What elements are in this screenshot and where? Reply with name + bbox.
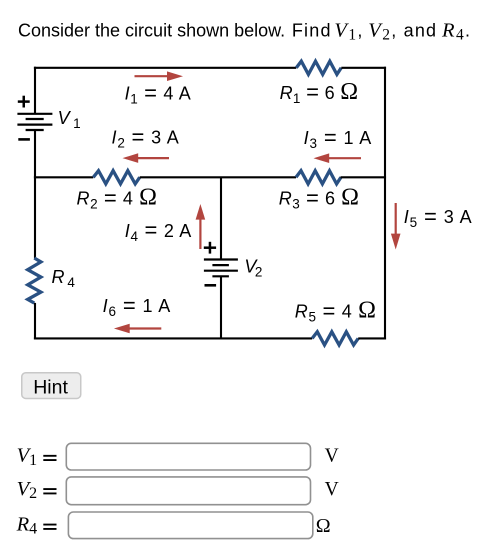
- current arrow I5 (down): [391, 203, 401, 250]
- resistor R1: [296, 61, 341, 74]
- hint button: [22, 373, 81, 399]
- label I1 = 4 A: [125, 80, 191, 106]
- label V1: [58, 108, 81, 131]
- svg-text:V: V: [325, 479, 339, 500]
- label I2 = 3 A: [112, 124, 179, 150]
- svg-text:I3 = 1 A: I3 = 1 A: [304, 125, 372, 151]
- wire left upper (top corner to battery V1): [34, 67, 36, 114]
- svg-text:R1 = 6 Ω: R1 = 6 Ω: [280, 79, 359, 106]
- wire top-right segment: [341, 67, 386, 69]
- wire top-left segment: [34, 67, 296, 69]
- svg-text:V1: V1: [17, 445, 38, 469]
- wire middle-center segment: [140, 176, 296, 178]
- V2 minus polarity mark: [205, 284, 217, 287]
- svg-text:R2 = 4 Ω: R2 = 4 Ω: [77, 185, 158, 212]
- label R5 = 4 ohm: [295, 298, 376, 325]
- label I4 = 2 A: [125, 218, 192, 244]
- label R2 = 4 ohm: [77, 185, 158, 212]
- unit V for second row: [325, 479, 339, 500]
- resistor R3: [296, 171, 341, 184]
- answer input box for V1: [66, 443, 310, 470]
- wire right side: [384, 67, 386, 340]
- svg-text:Hint: Hint: [33, 376, 68, 398]
- V1 minus polarity mark: [18, 138, 30, 141]
- label R3 = 6 ohm: [279, 185, 359, 212]
- label I5 = 3 A: [404, 204, 472, 230]
- resistor R4: [28, 258, 41, 303]
- answer label R4 =: [16, 513, 57, 537]
- answer input box for R4: [68, 512, 312, 539]
- current arrow I3 (left): [314, 153, 362, 163]
- svg-text:V2: V2: [244, 257, 262, 280]
- unit ohm for third row: [316, 515, 331, 537]
- svg-text:V2: V2: [17, 478, 38, 502]
- svg-text:I1 = 4 A: I1 = 4 A: [125, 80, 191, 106]
- svg-text:V1: V1: [58, 108, 81, 131]
- answer input box for V2: [66, 477, 310, 505]
- wire middle-left segment: [34, 176, 93, 178]
- hint button label: [33, 376, 68, 398]
- unit V for first row: [325, 446, 339, 467]
- resistor R5: [312, 332, 358, 345]
- svg-text:R4: R4: [16, 513, 38, 537]
- V2 plus polarity mark: [204, 242, 216, 254]
- wire bottom-left segment: [34, 337, 312, 339]
- svg-text:Ω: Ω: [316, 515, 331, 537]
- wire bottom-right segment: [358, 337, 386, 339]
- svg-text:I2 = 3 A: I2 = 3 A: [112, 124, 179, 150]
- title: [18, 19, 470, 43]
- current arrow I6 (left): [114, 324, 161, 334]
- svg-text:R4: R4: [52, 267, 76, 290]
- label I3 = 1 A: [304, 125, 372, 151]
- answer label V2 =: [17, 478, 57, 502]
- battery V1: [17, 114, 52, 130]
- svg-text:I5 = 3 A: I5 = 3 A: [404, 204, 472, 230]
- wire middle-right segment: [341, 176, 387, 178]
- label V2: [244, 257, 262, 280]
- svg-text:I4 = 2 A: I4 = 2 A: [125, 218, 192, 244]
- current arrow I1 (right): [135, 71, 184, 81]
- current arrow I2 (left): [123, 153, 170, 163]
- svg-text:R5 = 4 Ω: R5 = 4 Ω: [295, 298, 376, 325]
- wire center branch upper (middle wire to battery V2): [220, 177, 222, 259]
- V1 plus polarity mark: [18, 96, 30, 108]
- battery V2: [204, 260, 238, 277]
- answer label V1 =: [17, 445, 57, 469]
- svg-text:I6 = 1 A: I6 = 1 A: [103, 293, 171, 319]
- label R1 = 6 ohm: [280, 79, 359, 106]
- svg-text:R3 = 6 Ω: R3 = 6 Ω: [279, 185, 359, 212]
- label I6 = 1 A: [103, 293, 171, 319]
- wire left lower (R4 to bottom corner): [34, 303, 36, 340]
- label R4: [52, 267, 76, 290]
- svg-text:Consider the circuit shown bel: Consider the circuit shown below. Find V…: [18, 19, 470, 43]
- wire left middle (battery V1 to resistor R4): [34, 130, 36, 258]
- svg-text:V: V: [325, 446, 339, 467]
- current arrow I4 (up): [196, 204, 206, 249]
- resistor R2: [93, 171, 139, 184]
- wire center branch lower (battery V2 to bottom wire): [220, 276, 222, 339]
